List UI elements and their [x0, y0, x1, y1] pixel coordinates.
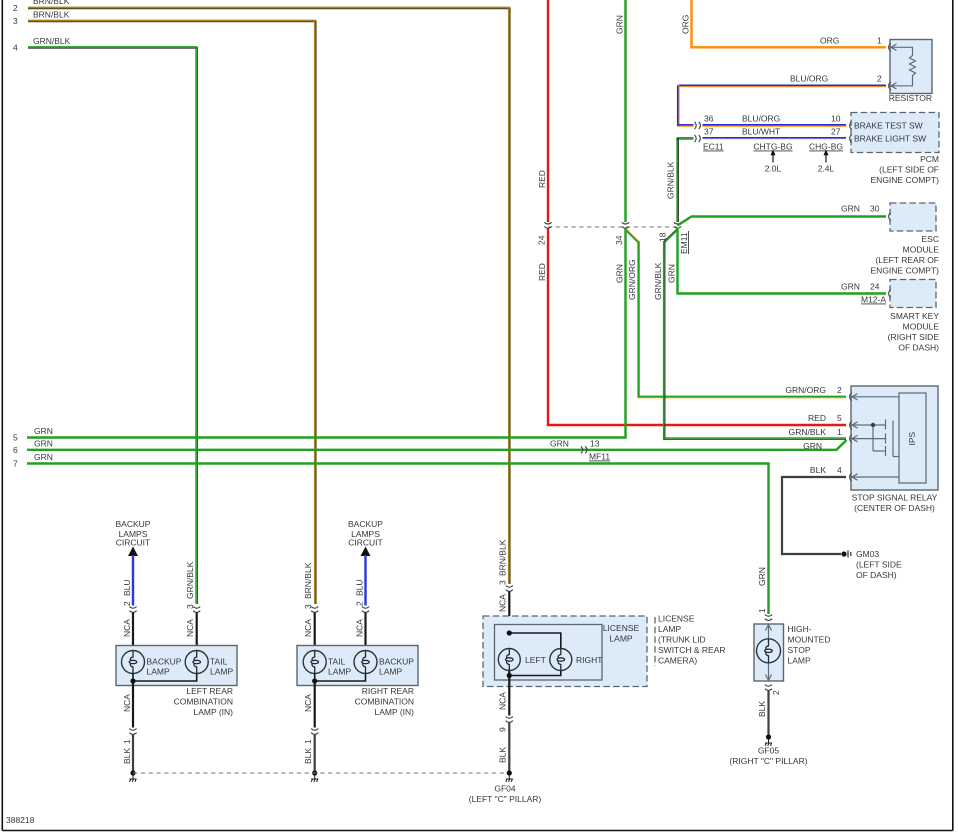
svg-text:GRN/ORG: GRN/ORG [627, 259, 637, 300]
svg-text:TAIL: TAIL [328, 657, 346, 667]
svg-text:(LEFT SIDE OF: (LEFT SIDE OF [879, 165, 939, 175]
svg-text:27: 27 [831, 127, 841, 137]
svg-text:4: 4 [13, 43, 18, 53]
svg-text:BLK: BLK [498, 747, 508, 763]
connector EC11 pin 37 [695, 135, 701, 142]
svg-text:BACKUP: BACKUP [348, 519, 383, 529]
svg-text:BRN/BLK: BRN/BLK [33, 10, 70, 20]
svg-text:BLK: BLK [757, 701, 767, 717]
svg-text:LAMP: LAMP [658, 624, 681, 634]
wire NCA from right lamp down [314, 681, 316, 728]
ground GF04 dashed link [133, 772, 509, 774]
high-mounted stop lamp box [754, 624, 784, 681]
PCM pin 10 connector [850, 121, 852, 129]
svg-text:BLK: BLK [303, 748, 313, 764]
left backup lamp bulb [122, 651, 145, 674]
relay pin 4 connector [850, 473, 852, 481]
wire 7 GRN horizontal [27, 462, 770, 464]
wire ORG horizontal to resistor pin 1 [690, 46, 886, 48]
right tail lamp bulb [303, 651, 326, 674]
svg-text:36: 36 [704, 114, 714, 124]
connector below high-mounted stop lamp pin 2 [765, 685, 772, 691]
svg-text:COMBINATION: COMBINATION [355, 697, 414, 707]
ground GM03 [841, 551, 846, 556]
svg-text:BACKUP: BACKUP [116, 519, 151, 529]
wire RED vertical (upper) [547, 0, 549, 222]
svg-text:GRN: GRN [615, 264, 625, 283]
svg-text:RESISTOR: RESISTOR [889, 93, 932, 103]
svg-text:6: 6 [13, 445, 18, 455]
connector on license ground wire pin 9 [506, 717, 513, 723]
svg-text:BLU: BLU [354, 579, 364, 596]
smart key module dashed box [890, 280, 936, 308]
svg-text:24: 24 [870, 282, 880, 292]
ground junction right lamp [312, 770, 317, 775]
svg-text:388218: 388218 [6, 815, 35, 825]
svg-text:NCA: NCA [122, 619, 132, 637]
ground junction license lamp [507, 770, 512, 775]
svg-text:LAMP (IN): LAMP (IN) [193, 707, 233, 717]
wire GRN/BLK corner into EC11 pin 37 [677, 138, 694, 140]
relay internal leads [852, 397, 900, 477]
wire BLK to ground left [132, 735, 134, 774]
svg-text:BLU/ORG: BLU/ORG [742, 114, 780, 124]
wire GRN/ORG branch from EM11 pin 34 to relay pin 2 [625, 229, 846, 398]
svg-text:BLK: BLK [810, 465, 826, 475]
svg-text:1: 1 [303, 739, 313, 744]
svg-text:MF11: MF11 [589, 452, 610, 462]
svg-text:3: 3 [13, 16, 18, 26]
svg-text:3: 3 [498, 580, 508, 585]
svg-text:GRN: GRN [615, 15, 625, 34]
svg-text:OF DASH): OF DASH) [898, 343, 939, 353]
svg-text:LAMP (IN): LAMP (IN) [374, 707, 414, 717]
relay pin 1 connector [850, 434, 852, 442]
svg-text:GRN: GRN [757, 567, 767, 586]
svg-text:ENGINE COMPT): ENGINE COMPT) [871, 266, 940, 276]
svg-text:NCA: NCA [498, 594, 508, 612]
svg-text:GRN: GRN [667, 264, 677, 283]
relay pin 2 connector [850, 393, 852, 401]
resistor box [890, 40, 932, 94]
high-mounted stop lamp bulb [757, 639, 781, 663]
svg-text:BRAKE TEST SW: BRAKE TEST SW [854, 121, 923, 131]
wire NCA into right backup lamp [364, 613, 366, 652]
resistor pin 1 connector [889, 43, 891, 51]
wire NCA from left lamp down [132, 681, 134, 728]
svg-text:STOP SIGNAL RELAY: STOP SIGNAL RELAY [852, 493, 938, 503]
wire GRN/BLK vertical above EM11 pin 18 [677, 138, 678, 222]
wire GRN main vertical (lower, joins wire 5) [624, 229, 626, 439]
svg-text:2.4L: 2.4L [818, 164, 835, 174]
inline connector MF11 pin 13 on wire 6 [581, 446, 587, 453]
wire BLU to left backup lamp [132, 555, 134, 606]
svg-text:GRN: GRN [841, 204, 860, 214]
connector EM11 dashed line [548, 226, 679, 228]
smart key pin 24 connector [889, 289, 891, 297]
svg-text:37: 37 [704, 127, 714, 137]
svg-text:MOUNTED: MOUNTED [788, 635, 831, 645]
license left bulb [498, 649, 520, 671]
svg-text:GRN: GRN [841, 282, 860, 292]
svg-text:1: 1 [757, 608, 767, 613]
svg-text:CAMERA): CAMERA) [658, 656, 697, 666]
svg-text:OF DASH): OF DASH) [856, 570, 897, 580]
connector EM11 pin 34 [622, 222, 629, 228]
wire NCA into license lamp [508, 592, 510, 649]
svg-text:COMBINATION: COMBINATION [174, 697, 233, 707]
wire NCA from license lamp down [508, 680, 510, 716]
ESC pin 30 connector [889, 212, 891, 220]
svg-text:2: 2 [877, 74, 882, 84]
svg-text:LAMP: LAMP [379, 667, 402, 677]
wire 2 BRN/BLK horizontal [28, 7, 510, 8]
svg-text:(LEFT REAR OF: (LEFT REAR OF [875, 255, 939, 265]
wire 6 GRN horizontal to stop signal relay pin 1 [27, 449, 837, 451]
svg-text:(LEFT "C" PILLAR): (LEFT "C" PILLAR) [469, 794, 542, 804]
svg-text:1: 1 [877, 36, 882, 46]
left tail lamp bulb [185, 651, 208, 674]
svg-text:1: 1 [837, 427, 842, 437]
svg-text:EM11: EM11 [679, 232, 689, 254]
wire GRN from EM11 pin 18 to smart key module pin 24 [678, 228, 887, 294]
svg-text:NCA: NCA [185, 619, 195, 637]
svg-text:IPS: IPS [907, 431, 917, 445]
svg-text:LICENSE: LICENSE [658, 614, 695, 624]
left lamp internal junction wire [133, 674, 197, 682]
svg-text:SMART KEY: SMART KEY [890, 311, 939, 321]
svg-text:LEFT REAR: LEFT REAR [186, 686, 233, 696]
relay pin 5 connector [850, 421, 852, 429]
svg-text:GRN: GRN [34, 426, 53, 436]
svg-text:2: 2 [771, 690, 781, 695]
wire BLU to right backup lamp [364, 555, 366, 606]
connector at license lamp pin 3 [506, 586, 513, 592]
svg-text:NCA: NCA [303, 619, 313, 637]
wire 4 GRN/BLK horizontal [28, 47, 197, 48]
svg-text:ESC: ESC [922, 234, 939, 244]
wire 4 GRN/BLK vertical to left rear tail lamp [196, 47, 197, 604]
right rear combination lamp box [297, 646, 418, 686]
wire 5 GRN horizontal [27, 436, 627, 438]
connector on left ground wire pin 1 [129, 729, 136, 735]
ESC module dashed box [890, 203, 936, 231]
relay IPS block [899, 393, 926, 483]
svg-text:LEFT: LEFT [525, 655, 546, 665]
svg-text:30: 30 [870, 204, 880, 214]
connector at right backup lamp pin 2 [362, 607, 369, 613]
wire BLU/ORG from resistor pin 2 [678, 85, 886, 126]
svg-text:GF05: GF05 [758, 746, 780, 756]
svg-text:1: 1 [122, 739, 132, 744]
resistor internal element [891, 47, 916, 86]
svg-text:2: 2 [354, 601, 364, 606]
svg-text:RED: RED [537, 170, 547, 188]
connector at high-mounted stop lamp pin 1 [765, 615, 772, 621]
svg-text:34: 34 [614, 235, 624, 245]
wire 3 BRN/BLK horizontal [28, 20, 316, 21]
wire NCA into left backup lamp [132, 613, 134, 652]
svg-text:MODULE: MODULE [903, 245, 940, 255]
svg-text:BLU/WHT: BLU/WHT [742, 127, 780, 137]
svg-text:MODULE: MODULE [903, 322, 940, 332]
svg-text:NCA: NCA [498, 692, 508, 710]
svg-text:BLU: BLU [122, 579, 132, 596]
svg-text:(CENTER OF DASH): (CENTER OF DASH) [854, 503, 935, 513]
high-mounted stop lamp internal leads with arrows [766, 625, 772, 681]
svg-text:BRN/BLK: BRN/BLK [498, 539, 508, 576]
license lamp location label with dashed lead [654, 617, 656, 666]
svg-text:RIGHT: RIGHT [576, 655, 602, 665]
wire GRN main vertical (upper) [624, 0, 626, 222]
svg-text:2: 2 [122, 601, 132, 606]
svg-text:RIGHT REAR: RIGHT REAR [362, 686, 414, 696]
svg-text:GRN/BLK: GRN/BLK [185, 561, 195, 599]
svg-text:NCA: NCA [303, 694, 313, 712]
wire 3 BRN/BLK vertical to right rear tail lamp [315, 20, 316, 604]
svg-text:24: 24 [537, 235, 547, 245]
svg-text:13: 13 [590, 438, 600, 448]
license right bulb [550, 649, 572, 671]
svg-text:NCA: NCA [354, 619, 364, 637]
svg-text:HIGH-: HIGH- [788, 624, 812, 634]
svg-text:RED: RED [808, 413, 826, 423]
junction node right [312, 678, 317, 683]
svg-text:4: 4 [837, 465, 842, 475]
svg-text:LAMP: LAMP [210, 667, 233, 677]
svg-text:LAMP: LAMP [147, 667, 170, 677]
connector at right tail lamp pin 3 [311, 607, 318, 613]
svg-text:5: 5 [13, 433, 18, 443]
svg-text:GRN/ORG: GRN/ORG [785, 385, 826, 395]
svg-text:BACKUP: BACKUP [147, 657, 182, 667]
right lamp internal junction wire [315, 674, 366, 682]
PCM dashed box [851, 113, 939, 153]
svg-text:ORG: ORG [681, 15, 691, 34]
wire BLK to ground right [314, 735, 316, 774]
svg-text:7: 7 [13, 459, 18, 469]
svg-text:LAMP: LAMP [609, 634, 632, 644]
svg-text:GRN/BLK: GRN/BLK [666, 161, 676, 199]
svg-text:10: 10 [831, 114, 841, 124]
svg-text:GM03: GM03 [856, 549, 879, 559]
svg-text:BACKUP: BACKUP [379, 657, 414, 667]
svg-text:CIRCUIT: CIRCUIT [348, 538, 382, 548]
svg-text:LAMP: LAMP [328, 667, 351, 677]
svg-text:LAMP: LAMP [788, 656, 811, 666]
wire 2 BRN/BLK vertical to license lamp [509, 7, 510, 584]
svg-text:M12-A: M12-A [861, 295, 886, 305]
license lamp outer dashed box [483, 616, 647, 687]
svg-text:2: 2 [13, 3, 18, 13]
svg-text:GRN: GRN [34, 438, 53, 448]
junction nodes license lamp [507, 630, 512, 635]
svg-text:GF04: GF04 [494, 784, 516, 794]
svg-text:9: 9 [498, 727, 508, 732]
svg-text:2.0L: 2.0L [765, 164, 782, 174]
license lamp inner box [495, 625, 603, 681]
svg-text:RED: RED [537, 263, 547, 281]
svg-text:GRN/BLK: GRN/BLK [789, 427, 827, 437]
ground GF05 [766, 734, 771, 739]
connector EM11 pin 18 [674, 222, 681, 228]
wire BLK to ground license [508, 723, 510, 774]
wire BLK from relay pin 4 to GM03 [782, 477, 846, 554]
PCM pin 27 connector [850, 134, 852, 142]
svg-text:5: 5 [837, 413, 842, 423]
svg-text:TAIL: TAIL [210, 657, 228, 667]
connector on right ground wire pin 1 [311, 729, 318, 735]
ground junction left lamp [130, 770, 135, 775]
connector at left tail lamp pin 3 [193, 607, 200, 613]
svg-text:BLU/ORG: BLU/ORG [790, 74, 828, 84]
wire RED vertical (lower) and horizontal to relay pin 5 [547, 229, 549, 427]
wire NCA into right tail lamp [314, 613, 316, 652]
svg-text:ORG: ORG [820, 36, 839, 46]
svg-text:CIRCUIT: CIRCUIT [116, 538, 150, 548]
svg-text:(RIGHT "C" PILLAR): (RIGHT "C" PILLAR) [729, 756, 807, 766]
connector at left backup lamp pin 2 [129, 607, 136, 613]
connector EC11 pin 36 [695, 122, 701, 129]
svg-text:ENGINE COMPT): ENGINE COMPT) [871, 175, 940, 185]
junction node left [130, 678, 135, 683]
stop signal relay box [851, 386, 938, 490]
svg-text:GRN/BLK: GRN/BLK [653, 262, 663, 300]
svg-text:BRN/BLK: BRN/BLK [33, 0, 70, 6]
svg-text:GRN: GRN [550, 438, 569, 448]
svg-text:GRN/BLK: GRN/BLK [33, 36, 71, 46]
svg-text:(TRUNK LID: (TRUNK LID [658, 635, 706, 645]
right backup lamp bulb [354, 651, 377, 674]
svg-text:LICENSE: LICENSE [603, 623, 640, 633]
left rear combination lamp box [116, 646, 237, 686]
svg-text:BLK: BLK [122, 748, 132, 764]
wire ORG vertical [690, 0, 692, 49]
svg-text:(RIGHT SIDE: (RIGHT SIDE [888, 332, 940, 342]
svg-text:BRN/BLK: BRN/BLK [303, 562, 313, 599]
resistor pin 2 connector [889, 82, 891, 90]
connector EM11 pin 24 [544, 222, 551, 228]
license lamp parallel wiring [509, 633, 561, 649]
svg-text:STOP: STOP [788, 645, 811, 655]
svg-text:GRN: GRN [803, 441, 822, 451]
wire NCA into left tail lamp [196, 613, 198, 652]
wire 7 GRN vertical to high-mounted stop lamp [767, 464, 769, 615]
svg-text:BRAKE LIGHT SW: BRAKE LIGHT SW [854, 134, 926, 144]
wire BLK to ground GF05 [767, 691, 769, 738]
wire BLU/WHT from EC11 to PCM pin 27 [703, 138, 847, 139]
wire GRN from EM11 pin 18 to ESC module pin 30 [678, 217, 887, 226]
wire GRN/BLK branch from EM11 pin 18 to relay pin 1 [663, 229, 846, 439]
svg-text:NCA: NCA [122, 694, 132, 712]
svg-text:2: 2 [837, 385, 842, 395]
svg-text:PCM: PCM [920, 154, 939, 164]
svg-text:SWITCH & REAR: SWITCH & REAR [658, 645, 726, 655]
wire BLU/ORG from EC11 to PCM pin 10 [703, 125, 847, 126]
svg-text:EC11: EC11 [703, 142, 724, 152]
svg-text:(LEFT SIDE: (LEFT SIDE [856, 560, 902, 570]
svg-text:GRN: GRN [34, 452, 53, 462]
